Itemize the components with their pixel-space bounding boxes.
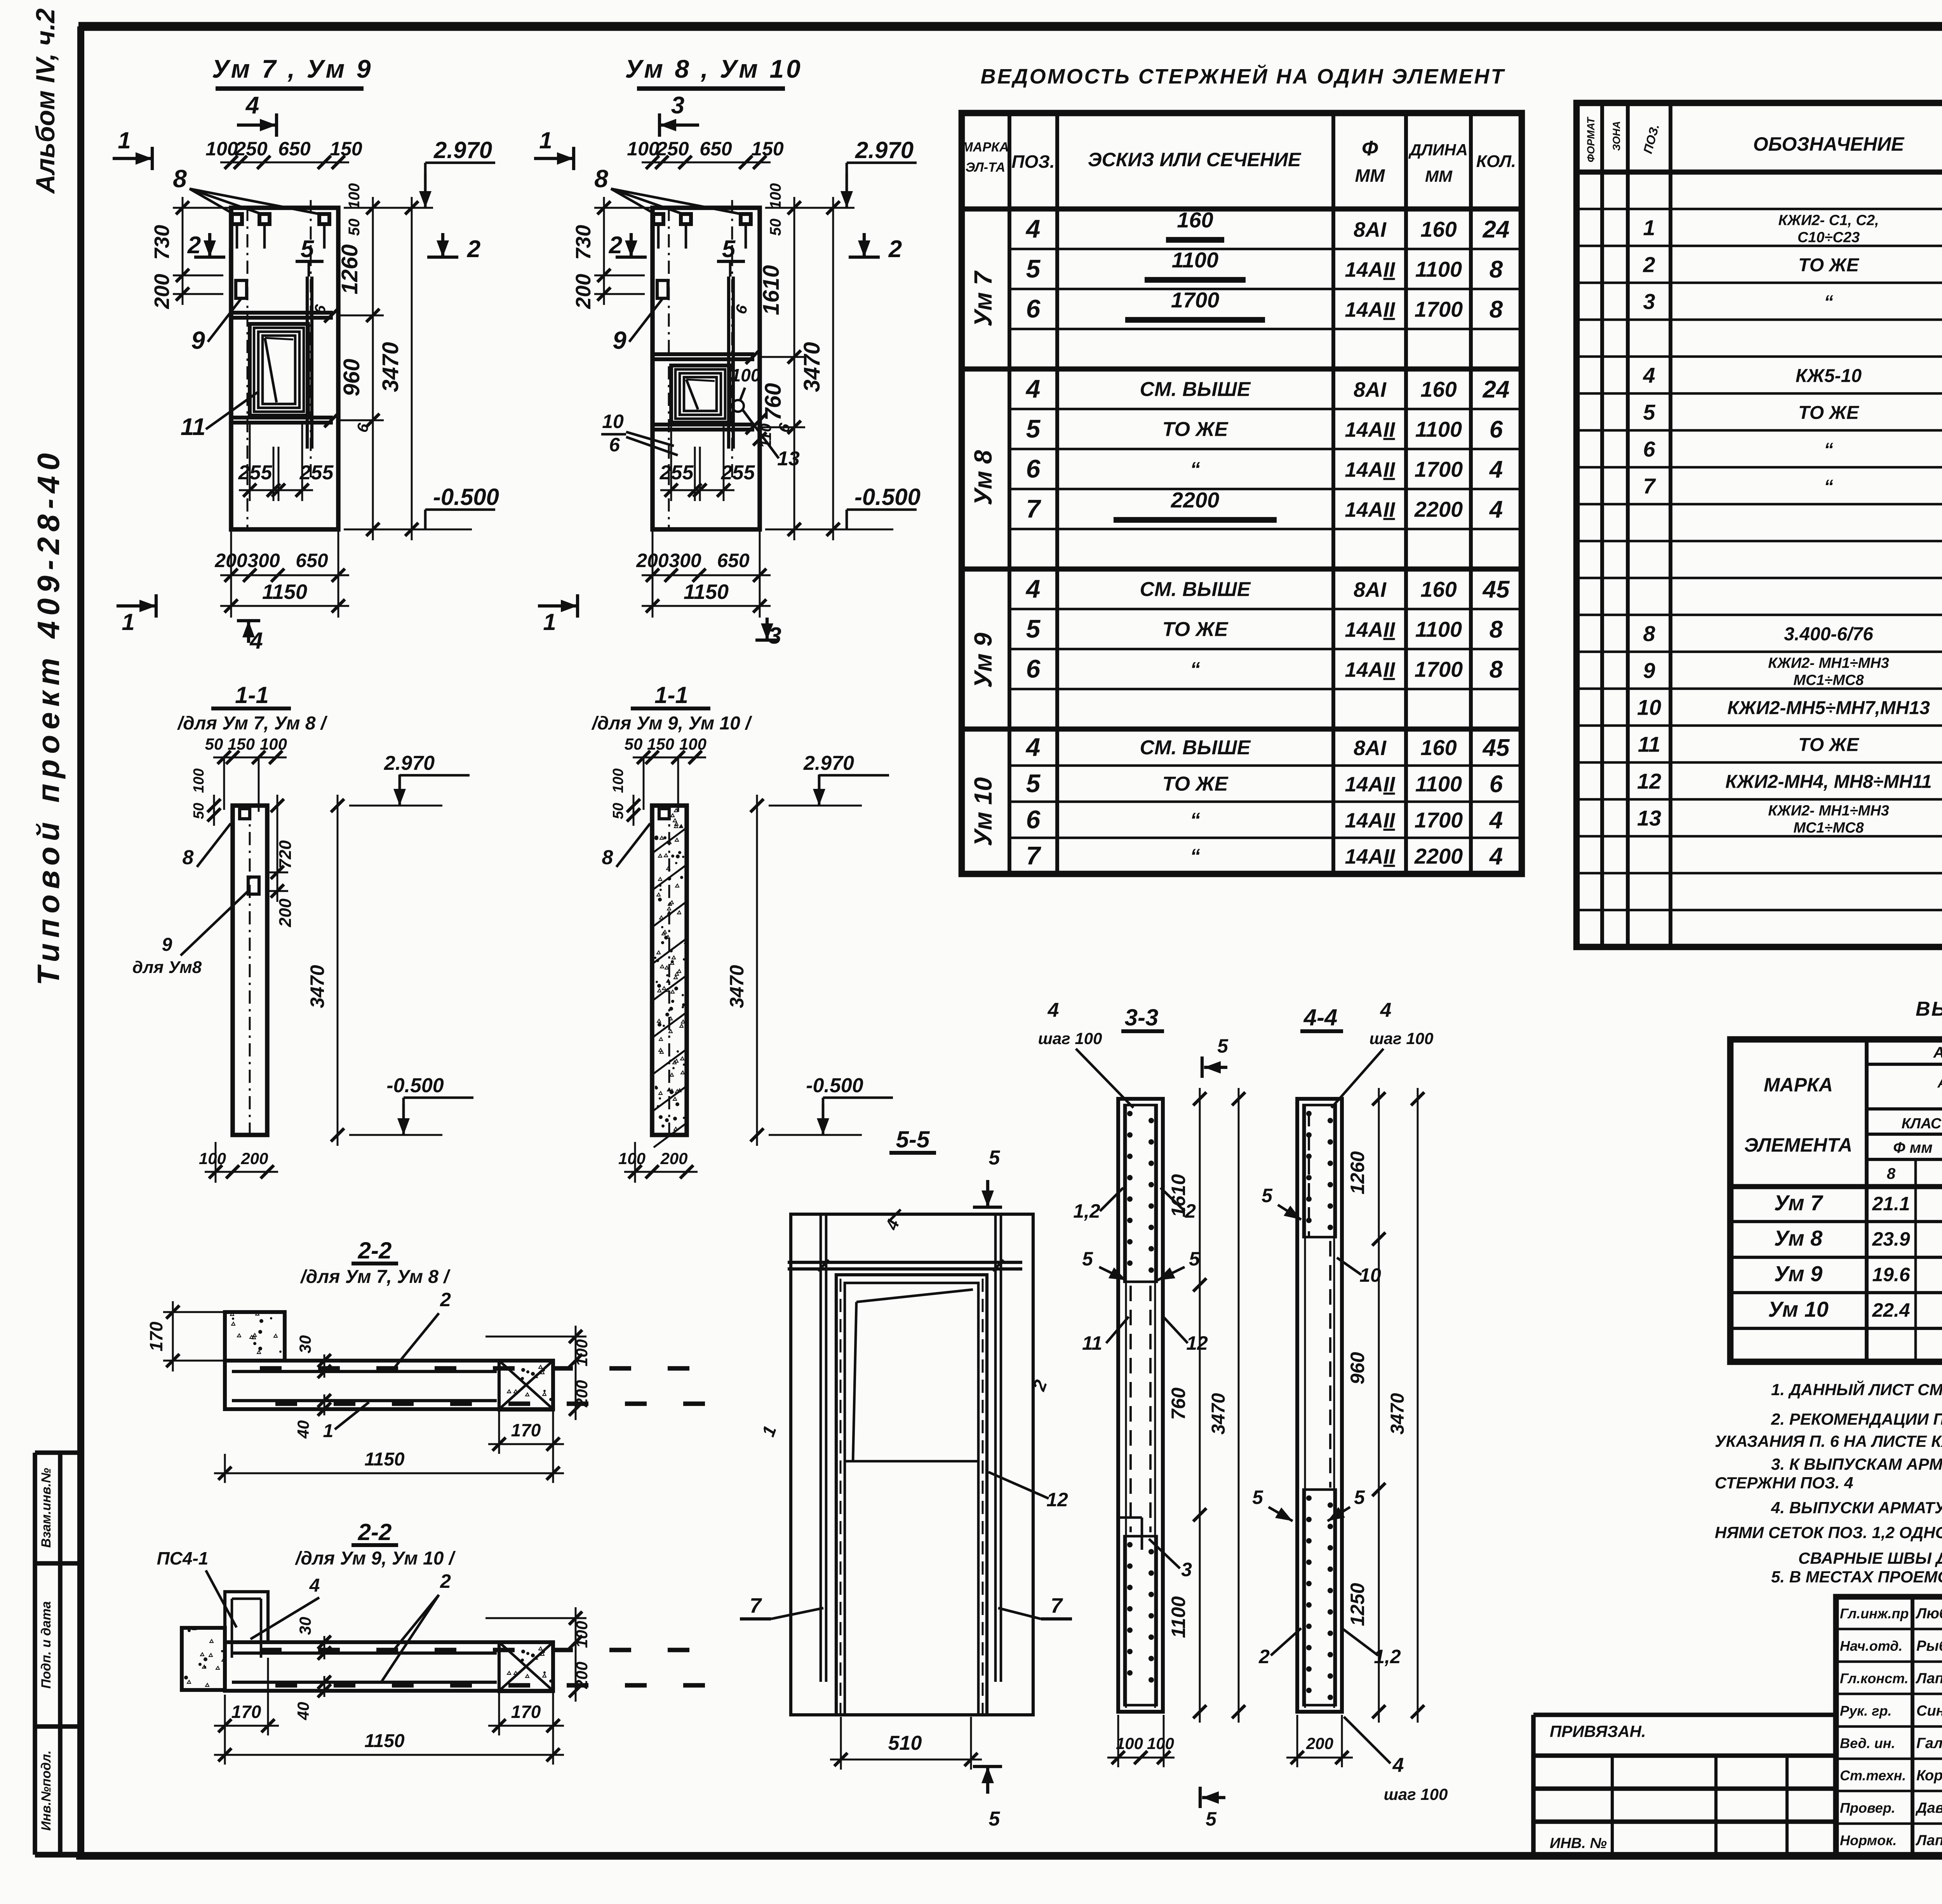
svg-text:100: 100 — [627, 138, 660, 160]
bottom dims 100 200 — [624, 1171, 698, 1173]
svg-text:Ум 7: Ум 7 — [1774, 1190, 1824, 1215]
spec row 7 — [1643, 474, 1942, 498]
svg-text:-0.500: -0.500 — [386, 1074, 444, 1097]
spec row 5 — [1643, 400, 1942, 425]
svg-text:14АII: 14АII — [1345, 418, 1395, 442]
section 4-4 column outline — [1297, 1099, 1342, 1712]
svg-text:5: 5 — [1252, 1486, 1263, 1508]
svg-text:“: “ — [1190, 458, 1200, 481]
right dimension lines with labels — [372, 197, 374, 540]
svg-text:160: 160 — [1177, 208, 1213, 232]
svg-text:200: 200 — [660, 1149, 687, 1168]
window opening frame — [250, 324, 308, 416]
svg-text:2. РЕКОМЕНДАЦИИ ПО МАТЕРИ: 2. РЕКОМЕНДАЦИИ ПО МАТЕРИАЛАМ СТЕН ИЗ КЕ… — [1771, 1410, 1942, 1428]
top dimension line 100 250 650 150 — [642, 162, 771, 164]
svg-text:ВЫБОРКА СТАЛИ НА ОДИН: ВЫБОРКА СТАЛИ НА ОДИН ЭЛЕМЕНТ, КГ — [1916, 998, 1942, 1020]
svg-text:8: 8 — [1490, 256, 1503, 283]
svg-text:шаг 100: шаг 100 — [1038, 1029, 1102, 1048]
svg-text:Подп. и дата: Подп. и дата — [39, 1601, 54, 1688]
svg-text:2: 2 — [1185, 1200, 1196, 1222]
svg-text:1-1: 1-1 — [654, 682, 688, 708]
svg-text:2.970: 2.970 — [803, 752, 854, 774]
svg-text:3470: 3470 — [1387, 1393, 1408, 1434]
svg-text:3470: 3470 — [1208, 1393, 1229, 1434]
drawing: elevation Ум7 Ум9 — [113, 54, 499, 654]
svg-text:СМ. ВЫШЕ: СМ. ВЫШЕ — [1140, 578, 1251, 601]
left dim 170 — [172, 1301, 174, 1371]
svg-text:200: 200 — [572, 274, 595, 309]
notes text block — [1715, 1380, 1942, 1586]
svg-text:Лапкин: Лапкин — [1915, 1671, 1942, 1687]
top dims 50 150 100 — [213, 757, 287, 759]
vedomost row 6 (1700) — [1026, 454, 1503, 483]
top-left concrete panel — [225, 1312, 285, 1361]
drawing: section 4-4 — [1252, 999, 1448, 1803]
svg-text:8АI: 8АI — [1354, 736, 1387, 760]
column section outline — [652, 806, 687, 1135]
svg-text:4: 4 — [1489, 807, 1503, 834]
spec row 3 — [1643, 289, 1942, 314]
embedded plates at column top — [653, 214, 663, 224]
spec row 9 — [1643, 655, 1942, 689]
svg-text:ВЕДОМОСТЬ СТЕРЖНЕЙ НА ОДИН: ВЕДОМОСТЬ СТЕРЖНЕЙ НА ОДИН ЭЛЕМЕНТ — [981, 64, 1505, 88]
concrete hatch fill — [664, 854, 668, 857]
svg-text:5: 5 — [1354, 1486, 1365, 1508]
svg-text:4: 4 — [245, 92, 259, 119]
svg-text:1100: 1100 — [1168, 1596, 1189, 1638]
right end concrete panel — [499, 1361, 553, 1410]
svg-text:Взам.инв.№: Взам.инв.№ — [39, 1468, 54, 1548]
svg-text:АРМАТУРНЫЕ ИЗДЕЛИЯ: АРМАТУРНЫЕ ИЗДЕЛИЯ — [1933, 1044, 1942, 1061]
bottom dim 510 — [830, 1759, 982, 1761]
svg-text:960: 960 — [1347, 1352, 1368, 1385]
svg-text:Ум 9: Ум 9 — [1774, 1262, 1823, 1286]
svg-text:19.6: 19.6 — [1872, 1264, 1911, 1286]
vyborka data row Ум 10 — [1768, 1297, 1942, 1321]
drawing: elevation Ум8 Ум10 — [534, 54, 921, 649]
vyborka data row Ум 9 — [1774, 1262, 1942, 1286]
svg-text:10: 10 — [1359, 1264, 1381, 1286]
vedomost row 4 (160) — [1025, 208, 1510, 243]
svg-text:8: 8 — [1490, 296, 1503, 323]
svg-text:200: 200 — [150, 274, 174, 309]
svg-text:2: 2 — [440, 1570, 451, 1592]
bottom opening dimension 255 255 — [660, 489, 734, 491]
drawing: section 1-1 for Ум7 Ум8 — [132, 682, 473, 1183]
column section outline — [233, 806, 267, 1135]
svg-text:510: 510 — [888, 1732, 922, 1754]
svg-text:24: 24 — [1483, 376, 1510, 403]
svg-text:45: 45 — [1482, 576, 1510, 603]
svg-text:255: 255 — [299, 461, 334, 484]
svg-text:23.9: 23.9 — [1872, 1228, 1910, 1250]
svg-text:5: 5 — [301, 236, 315, 263]
svg-text:50: 50 — [205, 735, 223, 753]
svg-text:960: 960 — [339, 359, 364, 397]
svg-text:250: 250 — [235, 138, 268, 160]
svg-text:760: 760 — [1168, 1387, 1189, 1420]
bottom dims 100 200 — [205, 1171, 278, 1173]
section 3-3 bottom dims 100 100 — [1107, 1757, 1175, 1759]
drawing: section 2-2 for Ум7 Ум8 — [146, 1237, 705, 1483]
svg-text:1: 1 — [1643, 216, 1655, 240]
svg-text:100: 100 — [573, 1339, 591, 1366]
svg-text:3470: 3470 — [726, 965, 748, 1008]
right dims 100 200 — [575, 1326, 577, 1420]
vedomost row 6 (1700) — [1026, 805, 1503, 834]
inner bar lines — [1304, 1104, 1306, 1708]
svg-text:1260: 1260 — [337, 244, 362, 294]
section 4-4 bottom dim 200 — [1286, 1757, 1353, 1759]
svg-text:ПРИВЯЗАН.: ПРИВЯЗАН. — [1550, 1722, 1646, 1740]
svg-text:170: 170 — [146, 1321, 166, 1351]
svg-text:8: 8 — [602, 846, 613, 869]
specification header labels — [1585, 113, 1942, 164]
bottom dim 1150 — [214, 1754, 564, 1756]
svg-text:Провер.: Провер. — [1840, 1800, 1895, 1816]
svg-text:13: 13 — [777, 447, 800, 470]
svg-text:50: 50 — [767, 219, 784, 236]
svg-text:255: 255 — [238, 461, 273, 484]
dim 3470 right — [337, 795, 339, 1146]
svg-text:АРМАТУРНАЯ СТАЛЬ: АРМАТУРНАЯ СТАЛЬ — [1937, 1075, 1942, 1091]
svg-text:1700: 1700 — [1415, 297, 1463, 322]
svg-text:ТО ЖЕ: ТО ЖЕ — [1162, 773, 1229, 795]
svg-text:“: “ — [1824, 477, 1833, 497]
svg-text:150: 150 — [228, 735, 255, 753]
svg-text:50: 50 — [610, 803, 626, 819]
svg-text:2: 2 — [609, 232, 622, 259]
svg-text:160: 160 — [1420, 577, 1456, 602]
svg-text:45: 45 — [1482, 734, 1510, 761]
svg-text:КЖ5-10: КЖ5-10 — [1796, 366, 1862, 386]
svg-text:4: 4 — [1380, 999, 1392, 1022]
svg-text:Кормшева: Кормшева — [1916, 1768, 1942, 1784]
svg-text:200: 200 — [1306, 1734, 1333, 1753]
right dims 720 200 — [277, 795, 278, 902]
svg-text:9: 9 — [191, 326, 205, 354]
svg-text:2.970: 2.970 — [855, 137, 914, 163]
svg-text:21.1: 21.1 — [1872, 1193, 1910, 1215]
svg-text:6: 6 — [1490, 416, 1503, 443]
beam outline — [225, 1361, 553, 1409]
bottom dimension 200 300 650 — [220, 574, 349, 576]
vedomost group labels Ум7 Ум8 Ум9 Ум10 — [969, 270, 997, 846]
svg-text:ТО ЖЕ: ТО ЖЕ — [1798, 255, 1860, 276]
svg-text:-0.500: -0.500 — [854, 484, 921, 510]
svg-text:30: 30 — [296, 1617, 314, 1635]
beam bars lower — [229, 416, 333, 419]
spec row 12 — [1637, 769, 1942, 794]
svg-text:12: 12 — [1046, 1489, 1068, 1511]
svg-text:5. В МЕСТАХ ПРОЕМОВ СЕТК: 5. В МЕСТАХ ПРОЕМОВ СЕТКИ ПОЗ, 1,2 ВЫРЕЗ… — [1771, 1568, 1942, 1586]
svg-text:5: 5 — [1026, 254, 1041, 283]
svg-text:Альбом IV, ч.2: Альбом IV, ч.2 — [31, 8, 60, 194]
svg-text:8: 8 — [594, 165, 608, 193]
svg-text:ПОЗ.: ПОЗ. — [1011, 151, 1055, 172]
svg-text:100: 100 — [1116, 1734, 1143, 1753]
svg-text:7: 7 — [1026, 841, 1042, 870]
svg-text:5: 5 — [1026, 614, 1041, 643]
svg-text:/для Ум 9, Ум 10 /: /для Ум 9, Ум 10 / — [591, 713, 752, 734]
svg-text:1. ДАННЫЙ ЛИСТ СМ. СОВМЕС: 1. ДАННЫЙ ЛИСТ СМ. СОВМЕСТНО С ЛИСТОМ КЖ… — [1771, 1380, 1942, 1399]
svg-text:100: 100 — [573, 1621, 591, 1648]
svg-text:1150: 1150 — [262, 580, 307, 604]
svg-text:50: 50 — [346, 219, 363, 236]
svg-text:УКАЗАНИЯ П. 6 НА ЛИСТЕ: УКАЗАНИЯ П. 6 НА ЛИСТЕ КЖ 5-1. — [1715, 1432, 1942, 1450]
svg-text:1100: 1100 — [1415, 772, 1462, 796]
svg-text:1700: 1700 — [1415, 657, 1463, 682]
svg-text:300: 300 — [247, 550, 280, 571]
svg-text:2200: 2200 — [1414, 844, 1463, 868]
svg-text:Ф мм: Ф мм — [1893, 1139, 1933, 1156]
svg-text:100: 100 — [260, 735, 287, 753]
svg-text:1100: 1100 — [1415, 257, 1462, 282]
svg-text:8АI: 8АI — [1354, 578, 1387, 602]
svg-text:150: 150 — [751, 138, 784, 160]
svg-text:1700: 1700 — [1171, 288, 1220, 312]
svg-text:730: 730 — [150, 225, 174, 260]
svg-text:22.4: 22.4 — [1872, 1299, 1910, 1321]
embedded plate mid (item 9) — [657, 280, 668, 298]
svg-text:4-4: 4-4 — [1303, 1004, 1338, 1030]
svg-text:ЭЛЕМЕНТА: ЭЛЕМЕНТА — [1744, 1134, 1852, 1156]
specification table grid — [1577, 103, 1942, 947]
right dims 100 200 — [575, 1607, 577, 1702]
drawing: section 5-5 door frame — [740, 1126, 1072, 1830]
svg-text:Нач.отд.: Нач.отд. — [1840, 1638, 1902, 1654]
svg-text:ФОРМАТ: ФОРМАТ — [1585, 117, 1597, 162]
svg-text:100: 100 — [679, 735, 706, 753]
svg-text:100: 100 — [1147, 1734, 1174, 1753]
bottom opening dimension 255 255 — [239, 489, 313, 491]
svg-text:24: 24 — [1483, 216, 1510, 243]
spec row 11 — [1638, 732, 1942, 757]
svg-text:100: 100 — [610, 768, 626, 793]
dim 3470 — [1238, 1088, 1240, 1723]
svg-text:5: 5 — [1206, 1808, 1217, 1830]
svg-text:255: 255 — [721, 461, 755, 484]
svg-text:ЭЛ-ТА: ЭЛ-ТА — [966, 160, 1005, 175]
bottom dim 1150 — [214, 1472, 564, 1474]
svg-text:ММ: ММ — [1425, 167, 1453, 185]
svg-text:3470: 3470 — [306, 965, 328, 1008]
vyborka header labels — [1744, 1044, 1942, 1185]
svg-text:3: 3 — [1181, 1559, 1192, 1580]
svg-text:1100: 1100 — [1415, 417, 1462, 442]
svg-text:4: 4 — [1489, 843, 1503, 870]
svg-text:9: 9 — [162, 935, 172, 955]
drawing: section 3-3 — [1038, 999, 1245, 1830]
svg-text:14АII: 14АII — [1345, 845, 1395, 868]
svg-text:4: 4 — [1392, 1754, 1404, 1777]
svg-text:1700: 1700 — [1415, 457, 1463, 482]
vyborka data row Ум 7 — [1774, 1190, 1942, 1215]
svg-text:Гальперина: Гальперина — [1916, 1735, 1942, 1752]
svg-text:3-3: 3-3 — [1125, 1004, 1159, 1030]
svg-text:14АII: 14АII — [1345, 458, 1395, 482]
svg-text:шаг 100: шаг 100 — [1369, 1029, 1434, 1048]
small bottom-left table with Привязан and инв № — [1533, 1715, 1836, 1856]
svg-text:Любавин: Любавин — [1915, 1606, 1942, 1622]
vedomost row 7 (2200) — [1026, 841, 1503, 870]
column outline — [653, 208, 760, 529]
svg-text:ПС4-1: ПС4-1 — [157, 1548, 209, 1568]
svg-text:8: 8 — [183, 846, 194, 869]
embedded plate mid item 9 — [248, 877, 259, 894]
svg-text:4: 4 — [1025, 374, 1041, 403]
svg-text:200: 200 — [240, 1149, 268, 1168]
svg-text:/для Ум 7, Ум 8 /: /для Ум 7, Ум 8 / — [177, 713, 328, 734]
svg-text:4. ВЫПУСКИ АРМАТУРЫ ИЗ СТ: 4. ВЫПУСКИ АРМАТУРЫ ИЗ СТЕНОВЫХ ПАНЕЛЕЙ … — [1771, 1498, 1942, 1517]
svg-text:Гл.инж.пр: Гл.инж.пр — [1840, 1606, 1909, 1622]
svg-text:1: 1 — [122, 609, 134, 635]
svg-text:5: 5 — [989, 1808, 1001, 1830]
embedded plate mid (item 9) — [236, 280, 247, 298]
svg-text:5: 5 — [1082, 1248, 1093, 1270]
title block signature grid — [1836, 1597, 1942, 1856]
vyborka table grid — [1730, 1039, 1942, 1362]
svg-text:40: 40 — [294, 1420, 312, 1439]
svg-text:Ум 10: Ум 10 — [969, 777, 997, 846]
svg-text:12: 12 — [1637, 769, 1661, 794]
svg-text:10: 10 — [1637, 695, 1661, 720]
bottom dimension 1150 — [220, 605, 349, 607]
svg-text:2-2: 2-2 — [358, 1237, 392, 1264]
spec row 1 — [1643, 212, 1942, 246]
svg-text:50: 50 — [625, 735, 643, 753]
spec row 8 — [1643, 621, 1942, 646]
svg-text:1250: 1250 — [1347, 1583, 1368, 1626]
rebar cages with dots — [1303, 1105, 1336, 1237]
svg-text:8АI: 8АI — [1354, 218, 1387, 242]
vertical rebar pair — [306, 277, 309, 449]
svg-text:МС1÷МС8: МС1÷МС8 — [1793, 672, 1864, 689]
svg-text:Рук. гр.: Рук. гр. — [1840, 1703, 1892, 1719]
svg-text:Инв.№подл.: Инв.№подл. — [39, 1750, 54, 1831]
svg-text:2.970: 2.970 — [384, 752, 435, 774]
window opening frame — [671, 365, 729, 423]
svg-text:160: 160 — [1420, 377, 1456, 402]
vedomost row 5 (1100) — [1026, 769, 1503, 798]
svg-text:2: 2 — [1258, 1646, 1270, 1667]
svg-text:ММ: ММ — [1355, 165, 1385, 186]
svg-text:4: 4 — [309, 1575, 320, 1596]
left concrete panel — [182, 1628, 225, 1690]
left dimension 730 / 200 — [603, 197, 605, 305]
svg-text:Ум 10: Ум 10 — [1768, 1297, 1829, 1321]
top dimension line 100 250 650 150 — [220, 162, 349, 164]
svg-text:“: “ — [1190, 845, 1200, 868]
svg-text:1150: 1150 — [364, 1449, 405, 1470]
svg-text:720: 720 — [276, 840, 295, 869]
svg-text:3470: 3470 — [378, 342, 403, 392]
svg-text:11: 11 — [1638, 732, 1660, 757]
svg-text:730: 730 — [572, 225, 595, 260]
svg-text:1: 1 — [323, 1421, 334, 1441]
vedomost row 4 (160) — [1025, 733, 1510, 761]
svg-text:ОБОЗНАЧЕНИЕ: ОБОЗНАЧЕНИЕ — [1753, 133, 1905, 155]
svg-text:ИНВ. №: ИНВ. № — [1550, 1835, 1607, 1852]
svg-text:10: 10 — [602, 411, 624, 432]
svg-text:11: 11 — [181, 414, 205, 440]
svg-text:КЛАСС АI: КЛАСС АI — [1902, 1116, 1942, 1132]
svg-text:3: 3 — [671, 92, 684, 119]
svg-text:“: “ — [1190, 658, 1200, 681]
svg-text:100: 100 — [731, 365, 761, 385]
svg-text:Лапкин: Лапкин — [1915, 1833, 1942, 1849]
svg-text:-0.500: -0.500 — [433, 484, 499, 510]
door leaf diagonal — [856, 1290, 973, 1302]
svg-text:4: 4 — [1489, 496, 1503, 523]
beam rebar lines — [232, 1652, 497, 1655]
left edge bars — [820, 1214, 822, 1682]
svg-text:100: 100 — [199, 1149, 226, 1168]
svg-text:Ст.техн.: Ст.техн. — [1840, 1768, 1906, 1784]
svg-text:5: 5 — [1643, 400, 1655, 425]
column axis dashed lines — [668, 208, 670, 529]
svg-text:2200: 2200 — [1171, 488, 1220, 512]
vedomost row 5 (1100) — [1026, 614, 1503, 643]
svg-text:150: 150 — [330, 138, 362, 160]
spec row 6 — [1643, 437, 1942, 461]
svg-text:7: 7 — [750, 1594, 762, 1617]
vyborka data row Ум 8 — [1774, 1226, 1942, 1250]
section 3-3 inner step — [1118, 1516, 1142, 1519]
svg-text:КЖИ2- МН1÷МН3: КЖИ2- МН1÷МН3 — [1768, 655, 1889, 672]
svg-text:7: 7 — [1051, 1594, 1063, 1617]
beam rebar lines — [232, 1370, 497, 1373]
svg-text:1: 1 — [539, 127, 552, 153]
vedomost table grid — [962, 113, 1522, 874]
svg-text:СМ. ВЫШЕ: СМ. ВЫШЕ — [1140, 378, 1251, 401]
svg-text:4: 4 — [1025, 733, 1041, 761]
svg-text:100: 100 — [767, 183, 784, 209]
svg-text:ДЛИНА: ДЛИНА — [1408, 141, 1468, 159]
section 3-3 column outline — [1118, 1099, 1163, 1712]
svg-text:12: 12 — [1186, 1332, 1208, 1354]
rebar cages with dots — [1124, 1105, 1157, 1282]
svg-text:3470: 3470 — [799, 342, 825, 392]
stirrup box above beam — [225, 1592, 268, 1642]
svg-text:Ум 8: Ум 8 — [1774, 1226, 1823, 1250]
svg-text:200: 200 — [573, 1662, 591, 1689]
svg-text:СВАРНЫЕ ШВЫ ДОЛЖНЫ ОБЕСПЕЧИ: СВАРНЫЕ ШВЫ ДОЛЖНЫ ОБЕСПЕЧИВАТЬ РАВНОПРО… — [1798, 1548, 1942, 1567]
svg-text:9: 9 — [1643, 658, 1655, 683]
svg-text:4: 4 — [1025, 214, 1041, 243]
spec row 10 — [1637, 695, 1942, 720]
svg-text:160: 160 — [1420, 217, 1456, 242]
svg-text:2.970: 2.970 — [433, 137, 492, 163]
svg-text:/для Ум 9, Ум 10 /: /для Ум 9, Ум 10 / — [295, 1548, 456, 1569]
svg-text:-0.500: -0.500 — [806, 1074, 863, 1097]
svg-text:ЗОНА: ЗОНА — [1611, 121, 1622, 151]
svg-text:3. К ВЫПУСКАМ АРМАТУРЫ: 3. К ВЫПУСКАМ АРМАТУРЫ ИЗ СТЕНОВЫХ ПАНЕЛ… — [1771, 1454, 1942, 1473]
left dimension 730 / 200 — [182, 197, 184, 305]
svg-text:8: 8 — [1887, 1165, 1896, 1182]
signature rows text — [1840, 1606, 1942, 1849]
svg-text:8: 8 — [173, 165, 187, 193]
svg-text:5-5: 5-5 — [896, 1126, 930, 1152]
column axis dashed — [668, 806, 670, 1135]
svg-text:3: 3 — [1643, 289, 1655, 314]
vedomost row 5 (1100) — [1026, 248, 1503, 283]
lap splice dashed bars — [1129, 1286, 1132, 1532]
svg-text:2: 2 — [1643, 252, 1655, 277]
svg-text:3.400-6/76: 3.400-6/76 — [1784, 624, 1873, 645]
outer frame 5-5 — [791, 1214, 1033, 1715]
svg-text:СМ. ВЫШЕ: СМ. ВЫШЕ — [1140, 736, 1251, 759]
